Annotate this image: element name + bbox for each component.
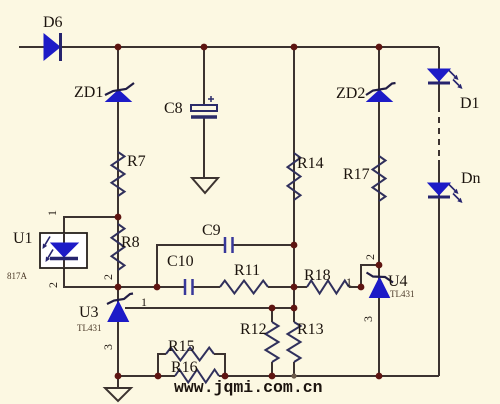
wire: node line y=287 (R8/U3 node through C10,R11,R18) xyxy=(118,286,361,288)
resistor R13 xyxy=(288,322,301,362)
svg-text:R14: R14 xyxy=(297,155,324,172)
ground (under U3) xyxy=(105,388,131,401)
node: bottom rail / R15 right xyxy=(222,373,229,380)
svg-text:D6: D6 xyxy=(43,14,63,31)
wire: U3 ground stub xyxy=(117,376,119,388)
node: ref line / R12 top xyxy=(269,305,276,312)
svg-text:ZD2: ZD2 xyxy=(336,85,365,102)
svg-text:2: 2 xyxy=(101,274,115,280)
resistor R12 xyxy=(266,322,279,362)
svg-text:R12: R12 xyxy=(240,321,267,338)
wire: LED string dashed segment xyxy=(438,117,440,160)
wire: bottom rail xyxy=(118,375,439,377)
capacitor C10 xyxy=(185,279,193,295)
resistor R14 xyxy=(288,153,301,200)
svg-text:U4: U4 xyxy=(388,273,408,290)
node: U1 pin1 / left bus xyxy=(115,214,122,221)
LED D1 xyxy=(428,69,463,89)
svg-text:3: 3 xyxy=(361,316,375,322)
wire: ZD2/R17/U4 vertical x=379 xyxy=(378,47,380,376)
svg-text:C8: C8 xyxy=(164,100,183,117)
wire: U3 reference line y=308 xyxy=(125,307,294,309)
node: ref line / R13 top xyxy=(291,305,298,312)
svg-text:R7: R7 xyxy=(127,153,146,170)
svg-text:2: 2 xyxy=(46,282,60,288)
resistor R15 xyxy=(166,348,214,361)
diode D6 xyxy=(44,33,61,61)
node: top rail / mid bus xyxy=(291,44,298,51)
zener ZD2 xyxy=(366,83,396,102)
svg-text:R8: R8 xyxy=(121,234,140,251)
svg-text:3: 3 xyxy=(101,344,115,350)
wire: C9 branch xyxy=(157,245,294,287)
wire: middle vertical x=294 (top rail to feedback node) xyxy=(293,47,295,308)
svg-text:ZD1: ZD1 xyxy=(74,84,103,101)
svg-text:R15: R15 xyxy=(168,338,195,355)
svg-text:C9: C9 xyxy=(202,222,221,239)
node: bottom rail / R12 xyxy=(269,373,276,380)
optocoupler U1 xyxy=(40,233,87,268)
node: U4 cathode xyxy=(376,262,383,269)
shunt regulator U4 xyxy=(367,273,394,298)
resistor R16 xyxy=(175,370,219,383)
svg-text:2: 2 xyxy=(363,254,377,260)
node: bottom rail / R13 xyxy=(291,373,296,378)
wire: R13 branch xyxy=(293,308,295,376)
svg-text:TL431: TL431 xyxy=(77,323,102,333)
node: top rail / ZD2 bus xyxy=(376,44,383,51)
node: bottom rail / ground xyxy=(115,373,122,380)
svg-text:Dn: Dn xyxy=(461,170,481,187)
svg-text:D1: D1 xyxy=(460,95,480,112)
wire: U1 pin2 to left bus xyxy=(64,268,118,287)
node: top rail / C8 xyxy=(201,44,208,51)
node: bottom rail / U4 pin3 xyxy=(376,373,383,380)
wire: R15 parallel loop xyxy=(158,354,225,376)
svg-text:R13: R13 xyxy=(297,321,324,338)
wire: C8 branch from top rail xyxy=(203,47,205,178)
svg-text:R18: R18 xyxy=(304,267,331,284)
svg-text:TL431: TL431 xyxy=(390,289,415,299)
wire: right LED string vertical, lower solid part xyxy=(438,160,440,376)
svg-text:1: 1 xyxy=(141,295,147,309)
node: C9 / mid bus xyxy=(291,242,298,249)
svg-text:U3: U3 xyxy=(79,304,99,321)
node: R11-R18 / mid bus xyxy=(291,284,298,291)
svg-text:R17: R17 xyxy=(343,166,370,183)
svg-text:R16: R16 xyxy=(171,359,198,376)
node: top rail / left bus xyxy=(115,44,122,51)
node: C9 / C10 branch xyxy=(154,284,161,291)
wire: right LED string vertical, upper solid part xyxy=(438,47,440,112)
resistor R17 xyxy=(373,156,386,201)
svg-text:1: 1 xyxy=(45,210,59,216)
svg-text:C10: C10 xyxy=(167,253,194,270)
node: U1 pin2 / left bus xyxy=(115,284,122,291)
svg-text:1: 1 xyxy=(346,275,352,289)
svg-text:U1: U1 xyxy=(13,230,33,247)
resistor R8 xyxy=(112,224,125,270)
wire: top rail xyxy=(19,46,439,48)
capacitor C9 xyxy=(225,237,233,253)
junction node dots xyxy=(115,44,383,380)
wire: R18 bend up to U4 cathode xyxy=(361,265,379,287)
svg-text:817A: 817A xyxy=(7,271,28,281)
ground (under C8) xyxy=(192,178,218,193)
wire: U1 pin1 to left bus xyxy=(64,217,118,233)
capacitor C8 xyxy=(191,96,217,117)
LED Dn xyxy=(428,183,463,203)
wire: R12 branch xyxy=(271,308,273,376)
wire: left vertical bus x=118 xyxy=(117,47,119,376)
resistor R7 xyxy=(112,152,125,196)
node: bottom rail / R15 left xyxy=(155,373,162,380)
node: R18 bend xyxy=(358,284,365,291)
zener ZD1 xyxy=(105,83,134,102)
svg-text:R11: R11 xyxy=(234,262,260,279)
shunt regulator U3 xyxy=(107,294,133,322)
svg-text:www.jqmi.com.cn: www.jqmi.com.cn xyxy=(174,378,323,397)
resistor R11 xyxy=(220,281,268,294)
resistor R18 xyxy=(307,281,349,294)
